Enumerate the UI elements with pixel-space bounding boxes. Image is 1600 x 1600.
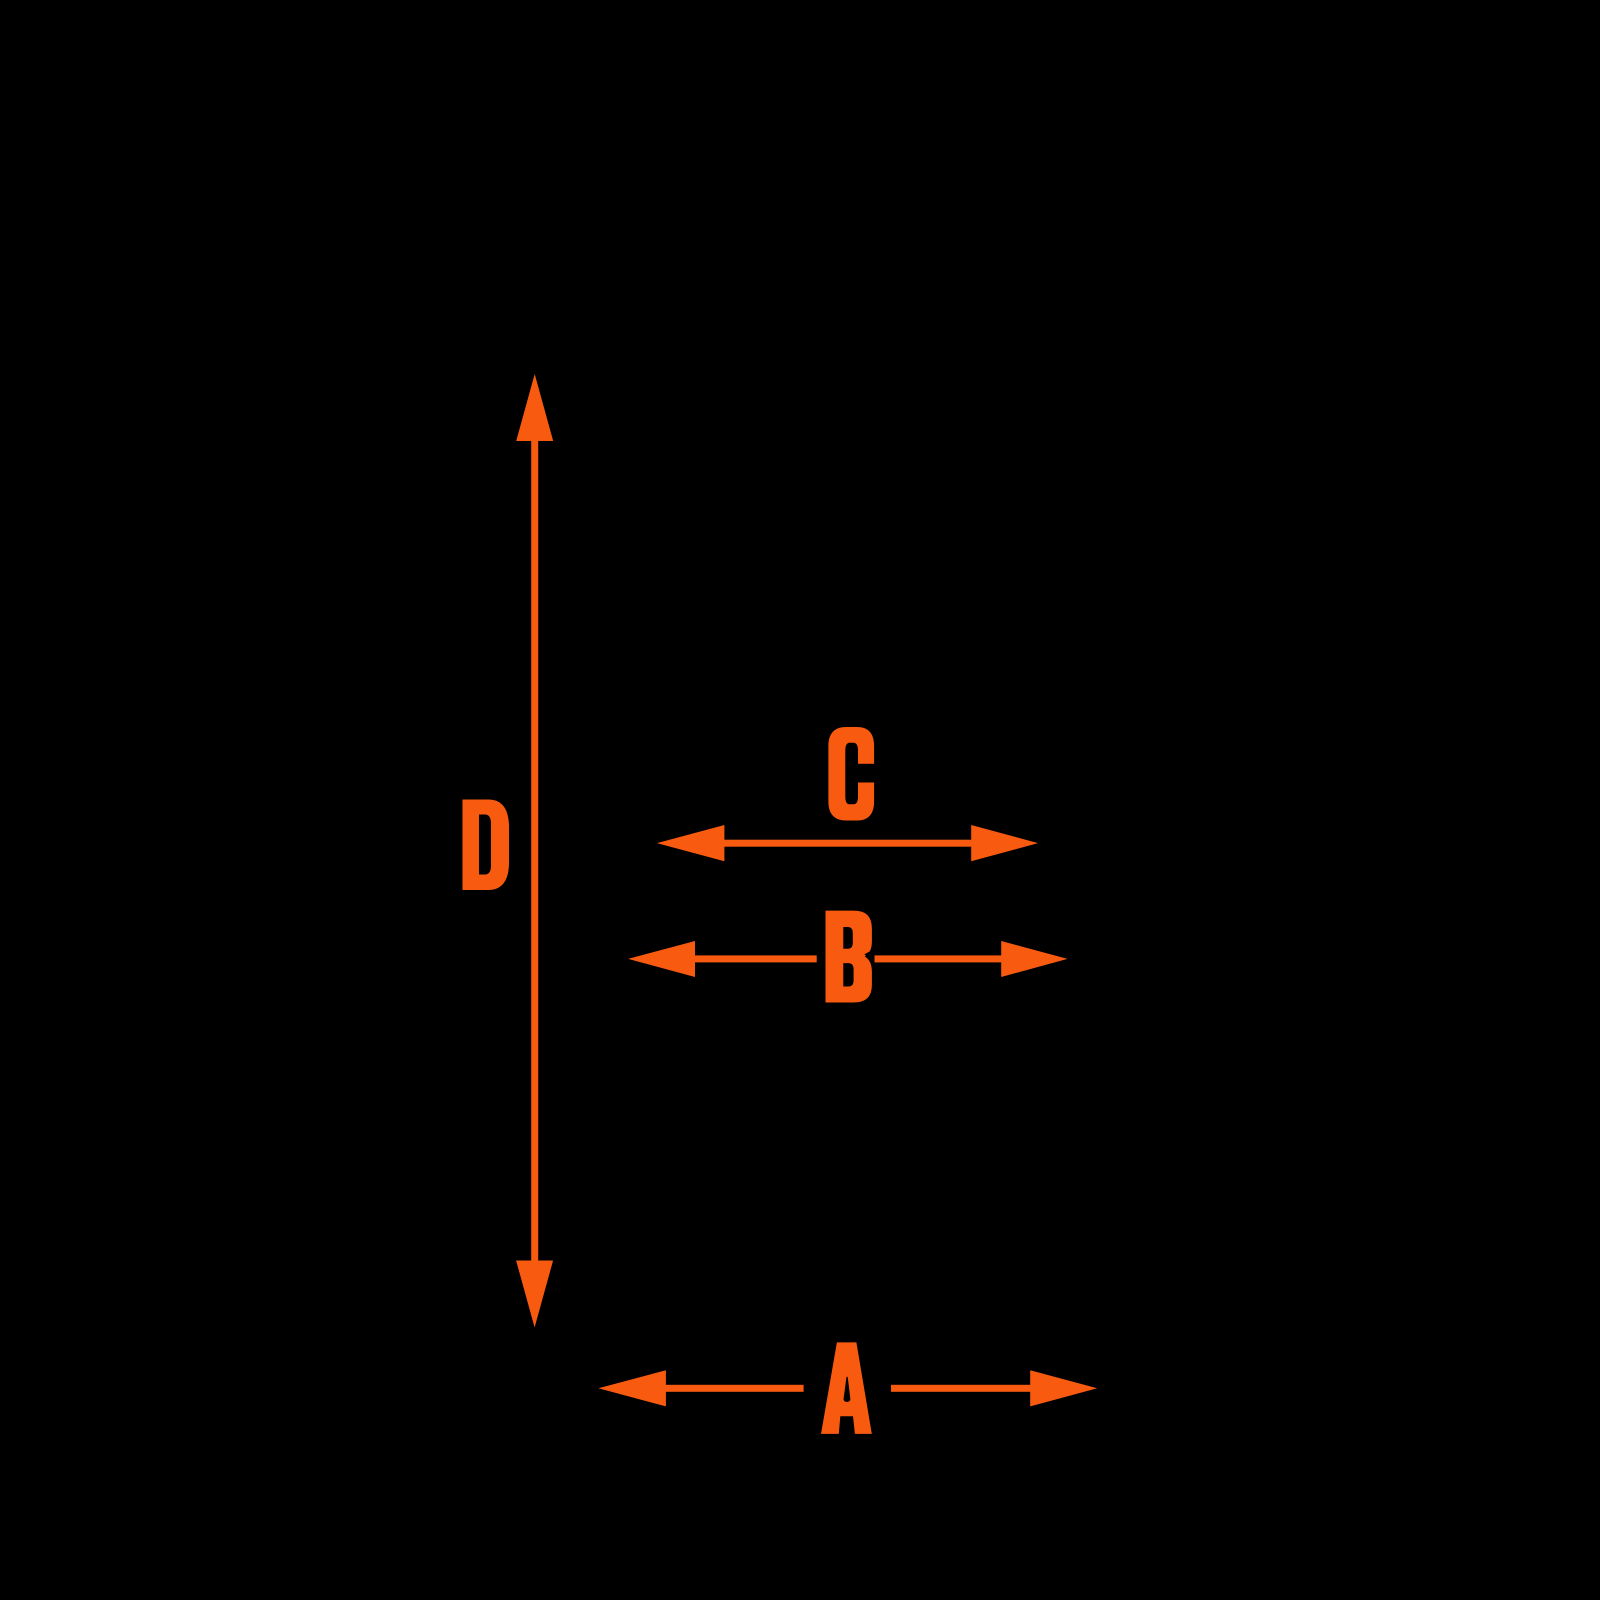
label D [463, 800, 510, 891]
arrowhead A right [1030, 1370, 1097, 1406]
label B [826, 911, 873, 1003]
arrowhead D bottom [516, 1261, 553, 1328]
dimension B horizontal double arrow [628, 941, 1067, 977]
arrowhead C left [657, 825, 725, 861]
wire A shaft left segment [664, 1385, 804, 1392]
arrowhead B right [1001, 941, 1067, 977]
dimension D vertical double arrow [516, 374, 553, 1328]
arrowhead C right [971, 825, 1038, 861]
label A [821, 1342, 872, 1434]
wire A shaft right segment [891, 1385, 1032, 1392]
arrowhead B left [628, 941, 695, 977]
label C [828, 727, 874, 821]
arrowhead D top [516, 374, 553, 441]
A counter sliver [844, 1377, 851, 1402]
wire B shaft left segment [693, 955, 817, 962]
wire D shaft [531, 438, 538, 1263]
arrowhead A left [598, 1370, 666, 1406]
C aperture notch [856, 764, 875, 783]
dimension A horizontal double arrow [598, 1370, 1097, 1406]
dimension C horizontal double arrow [657, 825, 1038, 861]
wire C shaft [722, 840, 974, 847]
wire B shaft right segment [875, 955, 1004, 962]
B waist notch [864, 950, 872, 960]
